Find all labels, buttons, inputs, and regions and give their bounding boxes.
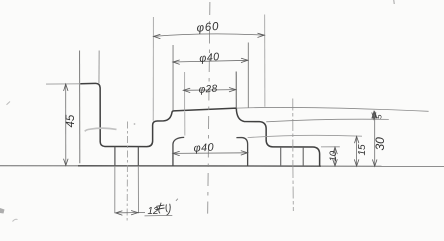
svg-text:45: 45 [65, 114, 77, 127]
node holeR [281, 147, 303, 166]
wire [78, 165, 321, 167]
wire ext [172, 45, 174, 110]
wire ext [247, 43, 249, 108]
wire dim [374, 112, 376, 167]
node kana-ri [166, 204, 170, 215]
wire underline [145, 214, 173, 217]
node stray1 [176, 199, 178, 201]
wire [184, 112, 186, 136]
wire [115, 166, 139, 213]
wire ext [235, 72, 237, 109]
node A [208, 2, 210, 214]
wire ext [46, 83, 81, 85]
svg-text:30: 30 [373, 137, 387, 151]
svg-text:φ60: φ60 [196, 21, 220, 35]
node smudge2 [134, 123, 136, 125]
svg-text:φ28: φ28 [198, 84, 218, 96]
svg-text:15: 15 [357, 144, 368, 156]
wire ext [248, 135, 362, 137]
wire ext [152, 17, 154, 121]
wire dim [173, 152, 248, 155]
wire ext [321, 146, 340, 148]
svg-text:φ40: φ40 [193, 142, 214, 155]
wire ext [266, 119, 389, 122]
svg-text:12: 12 [148, 206, 160, 217]
svg-text:10: 10 [328, 150, 339, 161]
node kana-ki [156, 203, 164, 213]
wire dim [334, 147, 336, 166]
wire ext [184, 72, 186, 111]
svg-text:φ40: φ40 [199, 51, 221, 65]
wire dim [183, 89, 235, 92]
node hub2 [236, 138, 247, 166]
node stray2 [7, 102, 11, 105]
wire dim [373, 112, 375, 120]
wire [79, 51, 81, 164]
wire dim [356, 136, 358, 166]
wire [98, 51, 100, 84]
node smudge [85, 128, 117, 131]
svg-text:5: 5 [375, 114, 384, 119]
wire [0, 165, 444, 168]
node topticks [393, 0, 395, 4]
node B [126, 122, 129, 222]
wire dim [65, 84, 67, 166]
wire ext [264, 15, 266, 107]
wire dim [154, 34, 265, 37]
node hub [173, 137, 184, 165]
node holeL [115, 147, 138, 166]
wire dim [116, 211, 145, 214]
wire dim [173, 60, 248, 62]
node C [292, 99, 295, 212]
node edgeblob [0, 208, 5, 214]
wire ext [236, 107, 428, 111]
node stray3 [13, 219, 18, 221]
node outline [81, 83, 320, 166]
node arrows [64, 33, 377, 215]
